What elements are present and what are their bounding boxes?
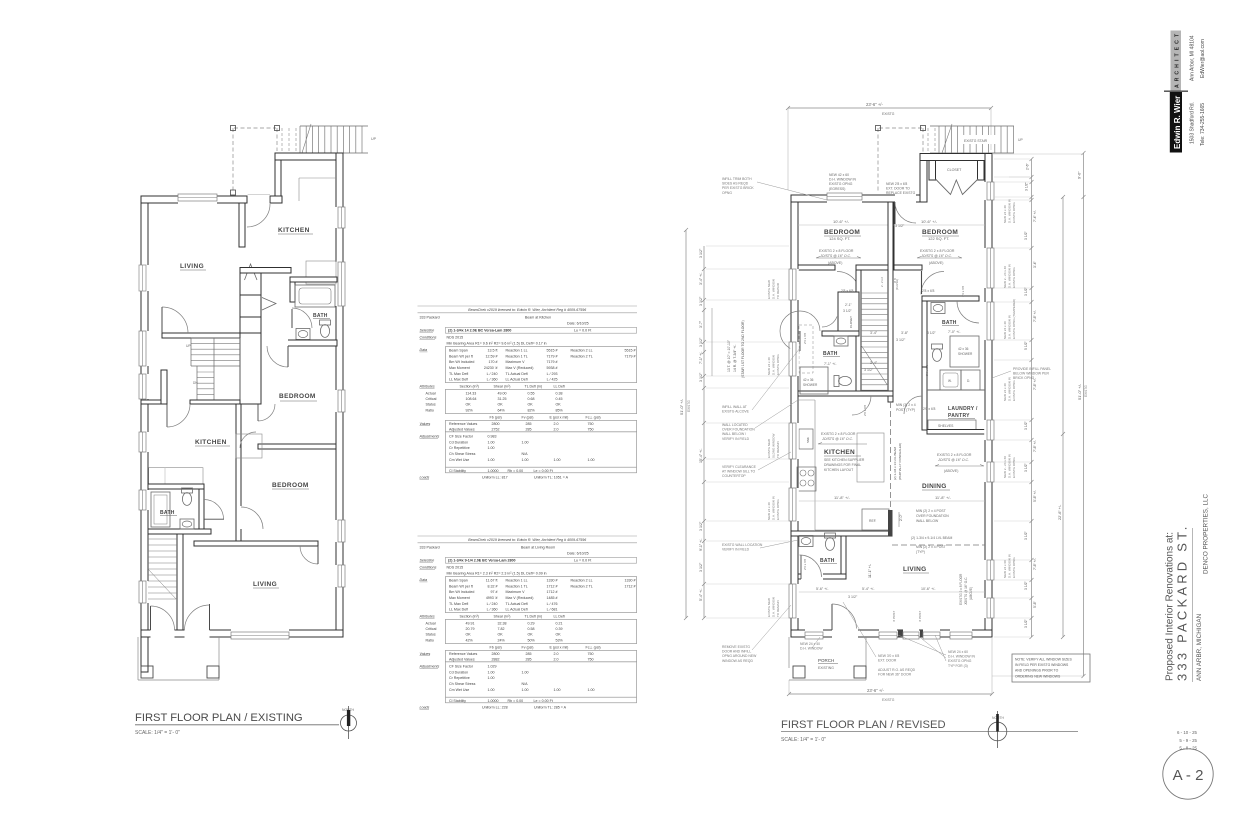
svg-text:3 1/2": 3 1/2" xyxy=(848,595,858,599)
svg-text:2'-0": 2'-0" xyxy=(899,513,903,521)
stair diagonal xyxy=(942,124,952,153)
svg-text:JOISTS @ 16" O.C.: JOISTS @ 16" O.C. xyxy=(920,254,952,258)
svg-text:OK: OK xyxy=(498,403,504,407)
BeamChek table: Beam at Living Room xyxy=(418,535,638,537)
svg-text:11'-1" +/-: 11'-1" +/- xyxy=(868,563,872,578)
dashed deck edge top xyxy=(234,127,276,129)
pantry bottom wall xyxy=(927,430,985,435)
svg-text:D.: D. xyxy=(967,379,970,383)
bath left door arc xyxy=(780,311,820,351)
svg-text:SCALE: 1/4" = 1'- 0": SCALE: 1/4" = 1'- 0" xyxy=(781,737,826,743)
svg-text:5515 #: 5515 # xyxy=(547,348,558,352)
bedroom1 top wall xyxy=(270,340,337,346)
kitchen sink xyxy=(799,429,813,449)
svg-text:Uniform TL: 1051 = A: Uniform TL: 1051 = A xyxy=(534,475,569,479)
svg-text:OK: OK xyxy=(556,403,562,407)
svg-text:Adjustments: Adjustments xyxy=(419,435,440,439)
svg-text:EXISTG OPNG: EXISTG OPNG xyxy=(829,182,853,186)
stair note bracket xyxy=(711,308,713,376)
svg-text:BEDROOM: BEDROOM xyxy=(922,229,958,236)
svg-text:TO REPAIR: TO REPAIR xyxy=(776,282,780,299)
svg-text:NEW 2'8 x 6'8: NEW 2'8 x 6'8 xyxy=(886,182,907,186)
right bedroom door leaf xyxy=(921,271,923,294)
svg-text:2.0: 2.0 xyxy=(554,652,559,656)
svg-text:3 1/2": 3 1/2" xyxy=(1024,580,1028,590)
svg-text:11.67 ft: 11.67 ft xyxy=(486,578,498,582)
svg-text:3 1/2": 3 1/2" xyxy=(699,562,703,572)
svg-text:Max Moment: Max Moment xyxy=(449,366,470,370)
svg-text:31.25: 31.25 xyxy=(498,397,507,401)
svg-text:108.64: 108.64 xyxy=(466,397,477,401)
svg-text:SLDNG WINDOW: SLDNG WINDOW xyxy=(771,433,775,458)
right outer wall xyxy=(985,154,992,638)
bath2 door arc xyxy=(204,500,224,520)
svg-text:Selection: Selection xyxy=(420,558,435,562)
svg-text:2 - 2 x 6: 2 - 2 x 6 xyxy=(880,276,884,287)
svg-text:Attributes: Attributes xyxy=(419,614,435,618)
laundry door arc xyxy=(904,396,922,414)
svg-text:(TYP): (TYP) xyxy=(916,550,925,554)
dim 2-0 xyxy=(898,512,900,527)
kitchen bottom wall xyxy=(791,531,892,536)
svg-text:IN FIELD PER EXISTG WINDOWS: IN FIELD PER EXISTG WINDOWS xyxy=(1015,663,1069,667)
svg-text:PANTRY: PANTRY xyxy=(948,413,970,419)
svg-text:LL Max Defl: LL Max Defl xyxy=(449,608,468,612)
svg-text:6 - 10 - 25: 6 - 10 - 25 xyxy=(1177,730,1198,735)
bath right left wall xyxy=(922,296,927,367)
svg-text:8.32 #: 8.32 # xyxy=(488,584,498,588)
svg-text:1712 #: 1712 # xyxy=(547,584,558,588)
svg-text:42 x 36: 42 x 36 xyxy=(958,347,969,351)
svg-text:NEW 24 x 40: NEW 24 x 40 xyxy=(1003,205,1007,223)
svg-text:Beam Wt per ft: Beam Wt per ft xyxy=(449,354,473,358)
svg-text:OK: OK xyxy=(556,633,562,637)
svg-text:750: 750 xyxy=(588,657,594,661)
stair2 treads xyxy=(148,539,177,599)
svg-text:PORCH: PORCH xyxy=(818,658,834,663)
svg-text:114.33: 114.33 xyxy=(466,392,477,396)
svg-text:BEDROOM: BEDROOM xyxy=(824,229,860,236)
porch outline right xyxy=(218,637,220,680)
extension lines right xyxy=(994,159,1030,637)
bathtub xyxy=(295,285,335,307)
svg-text:64%: 64% xyxy=(498,408,506,412)
svg-text:Fv (psi): Fv (psi) xyxy=(522,416,534,420)
svg-text:EXISTG 2 x 8 FLOOR: EXISTG 2 x 8 FLOOR xyxy=(920,249,955,253)
svg-text:285: 285 xyxy=(526,427,532,431)
svg-text:Uniform LL: 228: Uniform LL: 228 xyxy=(482,705,508,709)
bath3 right wall xyxy=(841,536,846,579)
svg-text:1.00: 1.00 xyxy=(488,670,495,674)
svg-text:Beam Span: Beam Span xyxy=(449,348,468,352)
hall closet walls xyxy=(838,292,859,331)
svg-text:4' POST: 4' POST xyxy=(918,611,922,622)
stair landing edge xyxy=(191,365,240,367)
svg-text:SCALE: 1/4" = 1'- 0": SCALE: 1/4" = 1'- 0" xyxy=(135,730,180,736)
svg-text:DENCO PROPERTIES, LLC: DENCO PROPERTIES, LLC xyxy=(1203,494,1210,574)
svg-text:82%: 82% xyxy=(528,408,536,412)
svg-text:UP: UP xyxy=(186,344,191,348)
bedroom2 left wall xyxy=(236,404,241,541)
svg-text:3'-8": 3'-8" xyxy=(901,331,909,335)
kitchen counter line xyxy=(299,177,336,179)
svg-text:3 1/2": 3 1/2" xyxy=(1024,618,1028,628)
svg-text:L / 360: L / 360 xyxy=(487,378,498,382)
svg-text:EXISTG NEW: EXISTG NEW xyxy=(767,439,771,458)
existing stair treads xyxy=(939,126,1013,153)
dashed deck left xyxy=(877,128,879,192)
bath3 door leaf xyxy=(800,555,802,579)
svg-text:D.H. WINDOW IN: D.H. WINDOW IN xyxy=(1007,454,1011,478)
dashed deck top xyxy=(879,127,922,129)
svg-text:3 1/2": 3 1/2" xyxy=(1024,286,1028,296)
hall left wall stub xyxy=(161,370,167,404)
svg-text:Loads: Loads xyxy=(420,705,430,709)
svg-text:EXISTG: EXISTG xyxy=(882,698,895,702)
svg-text:Data: Data xyxy=(420,348,428,352)
svg-text:COUNTERTOP: COUNTERTOP xyxy=(722,474,746,478)
svg-text:(FLUSH): (FLUSH) xyxy=(895,279,899,290)
svg-text:EXISTG OPNG (TEMPERED): EXISTG OPNG (TEMPERED) xyxy=(1012,299,1016,339)
svg-text:NDS 2015: NDS 2015 xyxy=(447,335,464,339)
svg-text:EXISTG NEW: EXISTG NEW xyxy=(767,598,771,617)
svg-text:N/A: N/A xyxy=(522,452,529,456)
svg-text:MIN (2) 2 x 4 POST: MIN (2) 2 x 4 POST xyxy=(916,545,946,549)
svg-text:7'-8" +/-: 7'-8" +/- xyxy=(1033,558,1037,570)
svg-text:EXISTG OPNG: EXISTG OPNG xyxy=(948,659,972,663)
range burners xyxy=(797,467,816,491)
dashed stair line xyxy=(927,128,929,154)
svg-text:D.H. WINDOW: D.H. WINDOW xyxy=(800,647,823,651)
svg-text:Actual: Actual xyxy=(426,622,436,626)
closet door arc xyxy=(822,317,837,328)
svg-text:TO REMAIN: TO REMAIN xyxy=(776,600,780,617)
svg-text:EXISTG OPNG: EXISTG OPNG xyxy=(1012,267,1016,288)
svg-text:1712 #: 1712 # xyxy=(547,590,558,594)
svg-text:Ann Arbor, MI 48104: Ann Arbor, MI 48104 xyxy=(1189,35,1195,81)
svg-text:Maximum V: Maximum V xyxy=(506,590,526,594)
beam dashed horizontal xyxy=(892,544,985,546)
svg-text:VERIFY CLEARANCE: VERIFY CLEARANCE xyxy=(722,465,757,469)
svg-text:PER EXISTG BRICK: PER EXISTG BRICK xyxy=(722,186,754,190)
svg-text:KITCHEN: KITCHEN xyxy=(278,227,310,234)
svg-text:AND OPENINGS PRIOR TO: AND OPENINGS PRIOR TO xyxy=(1015,669,1059,673)
svg-text:750: 750 xyxy=(588,652,594,656)
svg-text:Cr Repetitive: Cr Repetitive xyxy=(449,446,470,450)
living2 door leaf xyxy=(317,546,319,564)
living2 top wall xyxy=(194,541,318,546)
svg-text:JOISTS @ 16" O.C.: JOISTS @ 16" O.C. xyxy=(964,577,968,605)
right bedroom bottom wall segment xyxy=(894,265,922,270)
svg-text:2800: 2800 xyxy=(492,652,500,656)
svg-text:EXISTG STAIR: EXISTG STAIR xyxy=(964,139,988,143)
svg-text:SHELVES: SHELVES xyxy=(938,424,954,428)
svg-text:49.00: 49.00 xyxy=(498,392,507,396)
svg-text:1.00: 1.00 xyxy=(554,688,561,692)
svg-text:22'-6" +/-: 22'-6" +/- xyxy=(1058,504,1062,520)
svg-text:Fv (psi): Fv (psi) xyxy=(522,646,534,650)
deck post bottom-left xyxy=(231,190,236,195)
svg-text:EXISTG OPNG: EXISTG OPNG xyxy=(1012,557,1016,578)
svg-text:3'-4" +/-: 3'-4" +/- xyxy=(699,272,703,285)
leader xyxy=(757,182,827,200)
bath2 shower xyxy=(151,492,170,527)
svg-text:122 SQ. FT.: 122 SQ. FT. xyxy=(928,236,949,241)
svg-text:3 1/2": 3 1/2" xyxy=(864,368,874,372)
svg-text:23'-6" +/-: 23'-6" +/- xyxy=(867,688,884,693)
svg-text:1.00: 1.00 xyxy=(488,676,495,680)
svg-text:24230 '#: 24230 '# xyxy=(484,366,498,370)
bath1 door leaf xyxy=(291,309,293,328)
svg-text:NDS 2015: NDS 2015 xyxy=(447,565,464,569)
svg-text:L / 425: L / 425 xyxy=(547,378,558,382)
svg-text:TL Max Defl: TL Max Defl xyxy=(449,372,468,376)
svg-text:D.H. WINDOW IN: D.H. WINDOW IN xyxy=(1007,264,1011,288)
svg-text:285: 285 xyxy=(526,657,532,661)
top wall west segment xyxy=(141,196,247,203)
front door arc xyxy=(832,604,857,629)
svg-text:D.H. WINDOW: D.H. WINDOW xyxy=(771,355,775,375)
svg-text:42 x 36: 42 x 36 xyxy=(803,378,814,382)
svg-text:NEW 24 x 40: NEW 24 x 40 xyxy=(767,502,771,520)
svg-text:L / 293: L / 293 xyxy=(547,372,558,376)
svg-text:9'-1" +/-: 9'-1" +/- xyxy=(699,538,703,551)
svg-text:Reaction 1 LL: Reaction 1 LL xyxy=(506,348,528,352)
bath1 left wall stub xyxy=(290,282,295,302)
svg-text:D.H. WINDOW: D.H. WINDOW xyxy=(771,597,775,617)
stair treads xyxy=(861,293,888,396)
svg-text:NEW 2 - 24 x 40: NEW 2 - 24 x 40 xyxy=(1003,266,1007,288)
svg-text:2.0: 2.0 xyxy=(554,427,559,431)
bath2 top wall xyxy=(148,484,204,489)
svg-text:Maximum V: Maximum V xyxy=(506,360,526,364)
svg-text:(2) 1-3/4x 14 2.0E BC Versa-L: (2) 1-3/4x 14 2.0E BC Versa-Lam 2800 xyxy=(448,329,511,333)
svg-text:Data: Data xyxy=(420,578,428,582)
title underline xyxy=(781,731,1078,733)
svg-text:285: 285 xyxy=(526,422,532,426)
svg-text:50%: 50% xyxy=(528,638,536,642)
svg-text:LL Actual Defl: LL Actual Defl xyxy=(506,378,528,382)
svg-text:EXISTG OPNG: EXISTG OPNG xyxy=(776,499,780,520)
svg-text:SHOWER: SHOWER xyxy=(958,352,973,356)
closet box 2 xyxy=(240,295,261,317)
svg-text:11'-8" +/-: 11'-8" +/- xyxy=(834,495,850,500)
svg-text:VERIFY IN FIELD: VERIFY IN FIELD xyxy=(722,437,750,441)
svg-text:OK: OK xyxy=(528,403,534,407)
svg-text:CF Size Factor: CF Size Factor xyxy=(449,435,474,439)
svg-text:DN: DN xyxy=(193,381,198,385)
top dim line 23-6 xyxy=(786,106,993,110)
svg-text:DINING: DINING xyxy=(922,483,947,490)
svg-text:170 #: 170 # xyxy=(489,360,498,364)
svg-text:7179 #: 7179 # xyxy=(625,354,636,358)
svg-text:9'-0": 9'-0" xyxy=(1078,171,1082,179)
svg-text:BEDROOM: BEDROOM xyxy=(272,482,309,489)
svg-text:(PARTIALLY CONCEALED): (PARTIALLY CONCEALED) xyxy=(898,443,902,480)
dashed deck edge left xyxy=(232,128,234,193)
washer xyxy=(940,370,961,390)
stair left wall xyxy=(856,270,861,396)
svg-text:1.029: 1.029 xyxy=(488,665,497,669)
dim line 51-0 right xyxy=(1082,151,1086,678)
svg-text:JOISTS @ 16" O.C.: JOISTS @ 16" O.C. xyxy=(937,458,969,462)
bedroom1 door leaf xyxy=(287,346,289,367)
leader xyxy=(760,540,798,548)
dim line left inner xyxy=(702,246,706,620)
svg-text:AT WINDOW SILL TO: AT WINDOW SILL TO xyxy=(722,470,756,474)
svg-text:(ABOVE): (ABOVE) xyxy=(929,261,943,265)
svg-text:3 1/2": 3 1/2" xyxy=(1024,530,1028,540)
bedroom1 door arc xyxy=(267,346,288,367)
svg-text:1.00: 1.00 xyxy=(588,458,595,462)
svg-text:3 1/2": 3 1/2" xyxy=(895,224,905,228)
svg-text:EXISTG OPNG: EXISTG OPNG xyxy=(1012,202,1016,223)
svg-text:3 1/2": 3 1/2" xyxy=(896,338,906,342)
svg-text:49.91: 49.91 xyxy=(466,622,475,626)
dim line 51-0 left xyxy=(684,228,688,620)
svg-text:VERIFY IN FIELD: VERIFY IN FIELD xyxy=(722,548,750,552)
svg-text:2.0: 2.0 xyxy=(554,422,559,426)
svg-text:Uniform LL: 817: Uniform LL: 817 xyxy=(482,475,508,479)
shelves box xyxy=(928,420,976,430)
svg-text:2752: 2752 xyxy=(492,427,500,431)
svg-text:2800: 2800 xyxy=(492,422,500,426)
svg-text:EXISTG: EXISTG xyxy=(882,112,895,116)
svg-text:1.00: 1.00 xyxy=(488,458,495,462)
svg-text:EXISTG 2 x 8 FLOOR: EXISTG 2 x 8 FLOOR xyxy=(821,432,856,436)
svg-text:PROVIDE INFILL PANEL: PROVIDE INFILL PANEL xyxy=(1013,367,1051,371)
kitchen island xyxy=(857,433,884,482)
bottom wall xyxy=(791,630,992,637)
svg-text:3 1/2": 3 1/2" xyxy=(843,309,853,313)
svg-text:OPNG AROUND NEW: OPNG AROUND NEW xyxy=(722,654,757,658)
svg-text:Beam at Living Room: Beam at Living Room xyxy=(521,546,555,550)
svg-text:D.H. WINDOW: D.H. WINDOW xyxy=(771,279,775,299)
svg-text:OK: OK xyxy=(498,633,504,637)
svg-text:Min Bearing Area R1= 9.6 in: Min Bearing Area R1= 9.6 in² R2= 9.6 in²… xyxy=(447,341,547,345)
svg-text:32.38: 32.38 xyxy=(498,622,507,626)
bath right top wall xyxy=(922,296,979,301)
svg-text:KITCHEN LAYOUT: KITCHEN LAYOUT xyxy=(824,468,853,472)
svg-text:Rb = 0.00: Rb = 0.00 xyxy=(508,469,524,473)
svg-text:1.0000: 1.0000 xyxy=(488,699,499,703)
svg-text:7'-8" +/-: 7'-8" +/- xyxy=(1033,440,1037,452)
svg-text:OK: OK xyxy=(528,633,534,637)
svg-text:2'8 x 6'8: 2'8 x 6'8 xyxy=(863,405,867,416)
dashed stair line xyxy=(281,128,283,153)
closet inner wall left xyxy=(929,161,936,181)
svg-text:Lu = 0.0 Ft: Lu = 0.0 Ft xyxy=(574,329,591,333)
svg-text:2882: 2882 xyxy=(492,657,500,661)
svg-text:BATH: BATH xyxy=(160,510,175,516)
svg-text:Adjusted Values: Adjusted Values xyxy=(449,657,475,661)
kitchen counter edge xyxy=(814,400,816,530)
svg-text:D.H. WINDOW IN: D.H. WINDOW IN xyxy=(771,496,775,520)
svg-text:KITCHEN: KITCHEN xyxy=(195,439,227,446)
svg-text:1.00: 1.00 xyxy=(554,458,561,462)
laundry shelf wall xyxy=(927,389,985,391)
svg-text:MIN (2) 2 x 4 POST: MIN (2) 2 x 4 POST xyxy=(916,509,946,513)
stair rail xyxy=(196,366,198,400)
svg-text:Reaction 2 TL: Reaction 2 TL xyxy=(571,354,593,358)
kitchen ext top wall xyxy=(275,153,343,160)
svg-text:Date: 6/10/25: Date: 6/10/25 xyxy=(567,321,589,325)
svg-text:Max V (Reduced): Max V (Reduced) xyxy=(506,366,534,370)
svg-text:Reaction 2 LL: Reaction 2 LL xyxy=(571,348,593,352)
svg-text:D.H. WINDOW IN: D.H. WINDOW IN xyxy=(1007,199,1011,223)
svg-text:LIVING: LIVING xyxy=(180,263,204,270)
svg-text:BATH: BATH xyxy=(313,313,328,319)
svg-text:Date: 6/10/25: Date: 6/10/25 xyxy=(567,551,589,555)
svg-text:D.H. WINDOW IN: D.H. WINDOW IN xyxy=(829,178,856,182)
svg-text:Tele: 734-255-1665: Tele: 734-255-1665 xyxy=(1200,103,1206,146)
living-kitchen divider wall xyxy=(239,203,245,247)
svg-text:Beam Span: Beam Span xyxy=(449,578,468,582)
svg-text:2'6 x 6'8: 2'6 x 6'8 xyxy=(923,407,936,411)
svg-text:Selection: Selection xyxy=(420,328,435,332)
stair top edge xyxy=(300,125,368,127)
porch post right xyxy=(207,666,219,678)
svg-text:Bm Wt Included: Bm Wt Included xyxy=(449,360,474,364)
svg-text:N/A: N/A xyxy=(522,682,529,686)
svg-text:Fb (psi): Fb (psi) xyxy=(490,416,502,420)
svg-text:2'-6": 2'-6" xyxy=(1026,162,1030,170)
architect black box Edwin R. Wier xyxy=(1164,90,1188,92)
svg-text:15'-4" +/-: 15'-4" +/- xyxy=(699,448,703,463)
svg-text:13 T. @ 10" = 10'-10": 13 T. @ 10" = 10'-10" xyxy=(727,339,731,372)
svg-text:Reference Values: Reference Values xyxy=(449,422,478,426)
svg-text:2'6 x 6'8: 2'6 x 6'8 xyxy=(803,559,807,570)
dashed stair line xyxy=(295,128,297,153)
bath left bottom wall xyxy=(798,391,893,396)
svg-text:DOOR AND INFILL: DOOR AND INFILL xyxy=(722,650,751,654)
svg-text:7179 #: 7179 # xyxy=(547,354,558,358)
svg-text:TL Defl (in): TL Defl (in) xyxy=(525,384,543,388)
svg-text:Beam Wt per ft: Beam Wt per ft xyxy=(449,584,473,588)
deck post top-left xyxy=(231,126,236,131)
svg-text:2'6 x 6'8: 2'6 x 6'8 xyxy=(961,286,965,297)
closet inner wall right xyxy=(978,161,985,181)
dim line 11-8 xyxy=(798,500,985,502)
svg-text:D.H. WINDOW IN: D.H. WINDOW IN xyxy=(1007,554,1011,578)
kitchen counter top xyxy=(798,399,815,401)
kitchen2 counter box xyxy=(149,468,203,485)
svg-text:SIDES AS REQD: SIDES AS REQD xyxy=(722,182,749,186)
svg-text:Loads: Loads xyxy=(420,475,430,479)
svg-text:750: 750 xyxy=(588,427,594,431)
svg-text:12.59 #: 12.59 # xyxy=(486,354,498,358)
sheet number A-2 xyxy=(1163,749,1213,799)
svg-text:3'-7": 3'-7" xyxy=(699,320,703,328)
svg-text:51'-0" +/-: 51'-0" +/- xyxy=(1077,383,1082,400)
svg-text:14 R. @ 7-3/4" +/-: 14 R. @ 7-3/4" +/- xyxy=(733,345,737,372)
svg-text:20.79: 20.79 xyxy=(466,627,475,631)
svg-text:(2) 1-3/4 x 9-1/4 LVL BEAM: (2) 1-3/4 x 9-1/4 LVL BEAM xyxy=(911,536,952,540)
svg-text:NEW 24 x 60: NEW 24 x 60 xyxy=(948,650,968,654)
top door arc xyxy=(247,204,270,227)
svg-text:EXISTG NEW: EXISTG NEW xyxy=(767,280,771,299)
svg-text:OPNG: OPNG xyxy=(722,191,732,195)
existing stair top edge xyxy=(930,125,1014,127)
svg-text:Values: Values xyxy=(420,652,431,656)
svg-text:NEW 3'0 x 6'8: NEW 3'0 x 6'8 xyxy=(878,654,899,658)
bottom wall xyxy=(141,630,343,637)
bottom door1 leaf xyxy=(150,606,152,630)
svg-text:10'-6" +/-: 10'-6" +/- xyxy=(921,219,938,224)
svg-text:L / 240: L / 240 xyxy=(487,372,498,376)
bedroom dim line xyxy=(798,224,985,226)
svg-text:24%: 24% xyxy=(498,638,506,642)
